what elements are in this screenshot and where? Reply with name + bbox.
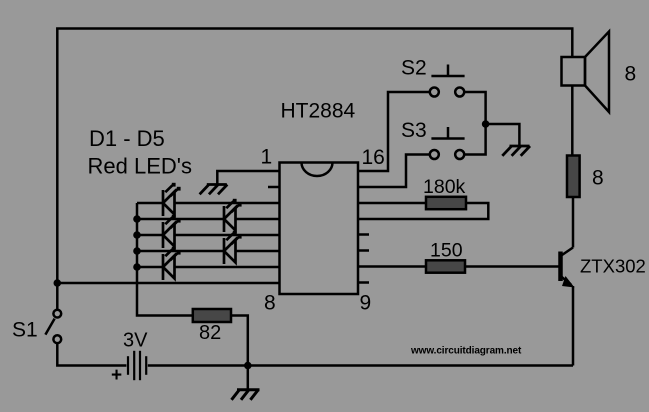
svg-text:D1 - D5: D1 - D5 bbox=[89, 126, 165, 151]
svg-text:82: 82 bbox=[199, 322, 221, 344]
LED D5 bbox=[163, 247, 181, 280]
wire pin 1 to ground bbox=[217, 171, 279, 185]
pin 9 stub bbox=[358, 281, 369, 284]
switch S2 pushbutton bbox=[430, 65, 465, 97]
wire 150 to base bbox=[465, 265, 559, 268]
pin 11 stub bbox=[358, 249, 369, 252]
wire pin 15 to S3 bbox=[358, 155, 430, 188]
wire LED common rail bbox=[137, 203, 193, 316]
wire 180k to pin 13 bbox=[358, 203, 488, 219]
wire S3 to junction bbox=[464, 124, 485, 155]
wire S2 to junction bbox=[464, 92, 485, 124]
svg-text:+: + bbox=[111, 365, 122, 386]
ground (S2/S3) bbox=[502, 146, 530, 156]
node ground junction bbox=[244, 362, 252, 370]
ground (pin 1) bbox=[200, 185, 228, 195]
svg-text:Red LED's: Red LED's bbox=[88, 154, 192, 179]
wire pin 14 to 180k bbox=[358, 202, 426, 205]
wire S1 to battery bbox=[57, 343, 126, 365]
LED D2 bbox=[224, 199, 242, 232]
battery B1 3V bbox=[128, 351, 146, 380]
svg-text:9: 9 bbox=[360, 292, 372, 315]
pin 2 stub bbox=[268, 186, 280, 189]
LED D1 bbox=[163, 183, 181, 216]
wire collector bbox=[572, 197, 575, 248]
LED D4 bbox=[224, 231, 242, 264]
wire pin 8 to left rail bbox=[57, 282, 279, 285]
IC U1 HT2884 bbox=[280, 163, 359, 295]
svg-text:S2: S2 bbox=[401, 57, 427, 80]
wire LED row4 (pin 6) bbox=[137, 250, 224, 253]
transistor Q1 ZTX302 bbox=[561, 248, 575, 288]
svg-text:180k: 180k bbox=[423, 176, 466, 198]
resistor R4 82 bbox=[193, 309, 231, 322]
wire ground riser (battery ground) bbox=[247, 366, 250, 390]
wire emitter to bottom rail bbox=[572, 286, 575, 366]
speaker LS1 bbox=[562, 32, 610, 113]
svg-text:HT2884: HT2884 bbox=[281, 100, 356, 123]
svg-text:150: 150 bbox=[430, 240, 463, 262]
LED D3 bbox=[163, 215, 181, 248]
wire LED row3 (pin 5) bbox=[137, 234, 163, 237]
svg-text:8: 8 bbox=[625, 63, 637, 86]
ground (battery) bbox=[232, 390, 260, 400]
svg-text:ZTX302: ZTX302 bbox=[580, 256, 646, 277]
wire junction to ground bbox=[486, 124, 520, 146]
svg-text:8: 8 bbox=[264, 292, 276, 315]
wire top rail bbox=[57, 29, 572, 311]
node S2/S3 junction bbox=[482, 120, 490, 128]
node LED rail row4 bbox=[133, 247, 141, 255]
wire LED row1 (pin 3) bbox=[137, 202, 163, 205]
svg-text:8: 8 bbox=[592, 167, 604, 190]
wire 82 to ground junction bbox=[231, 316, 248, 366]
wire bottom rail bbox=[248, 364, 573, 367]
resistor R2 150 bbox=[426, 260, 465, 272]
wire speaker to resistor bbox=[571, 86, 574, 156]
resistor R3 8 (vertical) bbox=[567, 156, 580, 198]
wire LED row5 (pin 7) bbox=[137, 266, 163, 269]
node LED rail row5 bbox=[133, 263, 141, 271]
node pin8 junction on left rail bbox=[54, 279, 62, 287]
svg-text:S3: S3 bbox=[401, 119, 427, 142]
svg-text:1: 1 bbox=[261, 146, 273, 169]
node LED rail row3 bbox=[133, 231, 141, 239]
svg-text:www.circuitdiagram.net: www.circuitdiagram.net bbox=[410, 346, 522, 357]
pin 12 stub bbox=[358, 233, 369, 236]
wire LED row2 (pin 4) bbox=[137, 218, 224, 221]
node LED rail row2 bbox=[133, 215, 141, 223]
switch S3 pushbutton bbox=[430, 127, 465, 159]
wire pin 16 to S2 bbox=[358, 92, 430, 171]
svg-text:S1: S1 bbox=[12, 319, 38, 342]
svg-text:3V: 3V bbox=[123, 330, 148, 352]
wire pin 10 to 150 bbox=[358, 265, 426, 268]
wire battery to bottom rail / ground junction bbox=[148, 364, 248, 367]
svg-text:16: 16 bbox=[362, 146, 385, 169]
switch S1 bbox=[45, 310, 61, 343]
resistor R1 180k bbox=[426, 197, 466, 209]
